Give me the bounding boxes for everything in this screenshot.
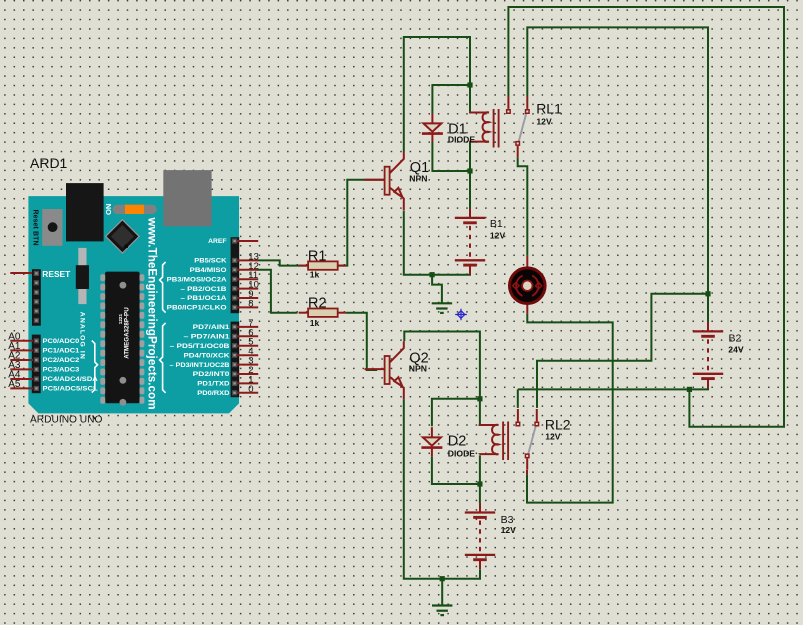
svg-text:PC4/ADC4/SDA: PC4/ADC4/SDA xyxy=(43,376,99,383)
svg-text:PC2/ADC2: PC2/ADC2 xyxy=(43,357,80,364)
svg-text:RL2: RL2 xyxy=(545,416,571,432)
svg-text:0: 0 xyxy=(248,384,253,395)
svg-text:ARD1: ARD1 xyxy=(30,155,68,171)
svg-text:ATMEGA328P-PU: ATMEGA328P-PU xyxy=(123,307,130,359)
svg-text:Reset BTN: Reset BTN xyxy=(32,210,39,246)
svg-text:1k: 1k xyxy=(310,269,320,279)
svg-text:NPN: NPN xyxy=(409,363,427,373)
svg-text:– PB1/OC1A: – PB1/OC1A xyxy=(181,295,228,302)
svg-text:PC0/ADC0: PC0/ADC0 xyxy=(43,338,80,345)
svg-text:NPN: NPN xyxy=(409,174,427,184)
svg-text:PD4/T0/XCK: PD4/T0/XCK xyxy=(184,352,231,359)
svg-text:– PD7/AIN1: – PD7/AIN1 xyxy=(184,334,231,341)
svg-text:12V: 12V xyxy=(536,117,552,127)
svg-text:ON: ON xyxy=(104,204,113,215)
svg-text:B2: B2 xyxy=(729,332,742,344)
svg-text:– PD3/INT1/OC2B: – PD3/INT1/OC2B xyxy=(170,362,231,369)
svg-text:PC3/ADC3: PC3/ADC3 xyxy=(43,367,80,374)
svg-text:24V: 24V xyxy=(728,345,744,355)
svg-text:R2: R2 xyxy=(308,296,327,312)
svg-text:PD0/RXD: PD0/RXD xyxy=(197,390,230,397)
svg-text:– PD5/T1/OC0B: – PD5/T1/OC0B xyxy=(170,343,230,350)
svg-text:1221: 1221 xyxy=(118,314,123,325)
svg-text:PB0/ICP1/CLKO: PB0/ICP1/CLKO xyxy=(167,305,227,312)
svg-text:DIODE: DIODE xyxy=(448,135,475,145)
svg-text:DIODE: DIODE xyxy=(448,449,475,459)
svg-text:8: 8 xyxy=(248,298,253,309)
svg-text:R1: R1 xyxy=(308,249,327,265)
svg-text:PB5/SCK: PB5/SCK xyxy=(194,258,227,265)
svg-text:D2: D2 xyxy=(448,434,467,450)
svg-text:– PB2/OC1B: – PB2/OC1B xyxy=(181,286,228,293)
svg-text:AREF: AREF xyxy=(208,238,227,245)
svg-text:RESET: RESET xyxy=(42,270,70,279)
svg-text:PD1/TXD: PD1/TXD xyxy=(197,381,230,388)
svg-text:A5: A5 xyxy=(8,379,21,390)
svg-text:PC1/ADC1: PC1/ADC1 xyxy=(43,348,80,355)
svg-text:ANALOG IN: ANALOG IN xyxy=(79,312,86,359)
svg-text:1k: 1k xyxy=(310,318,320,328)
svg-text:PB3/MOSI/OC2A: PB3/MOSI/OC2A xyxy=(167,276,227,283)
svg-text:ARDUINO UNO: ARDUINO UNO xyxy=(30,415,103,426)
svg-text:12V: 12V xyxy=(490,230,506,240)
svg-text:RL1: RL1 xyxy=(536,101,562,117)
svg-text:12V: 12V xyxy=(501,525,517,535)
svg-text:PC5/ADC5/SCL: PC5/ADC5/SCL xyxy=(43,386,98,393)
svg-text:B3: B3 xyxy=(501,514,514,526)
svg-text:PD2/INT0: PD2/INT0 xyxy=(193,371,230,378)
svg-text:12V: 12V xyxy=(545,432,561,442)
svg-text:PD7/AIN1: PD7/AIN1 xyxy=(193,324,230,331)
svg-text:PB4/MISO: PB4/MISO xyxy=(190,267,227,274)
svg-text:www.TheEngineeringProjects.com: www.TheEngineeringProjects.com xyxy=(146,217,159,410)
svg-text:B1: B1 xyxy=(490,218,503,230)
